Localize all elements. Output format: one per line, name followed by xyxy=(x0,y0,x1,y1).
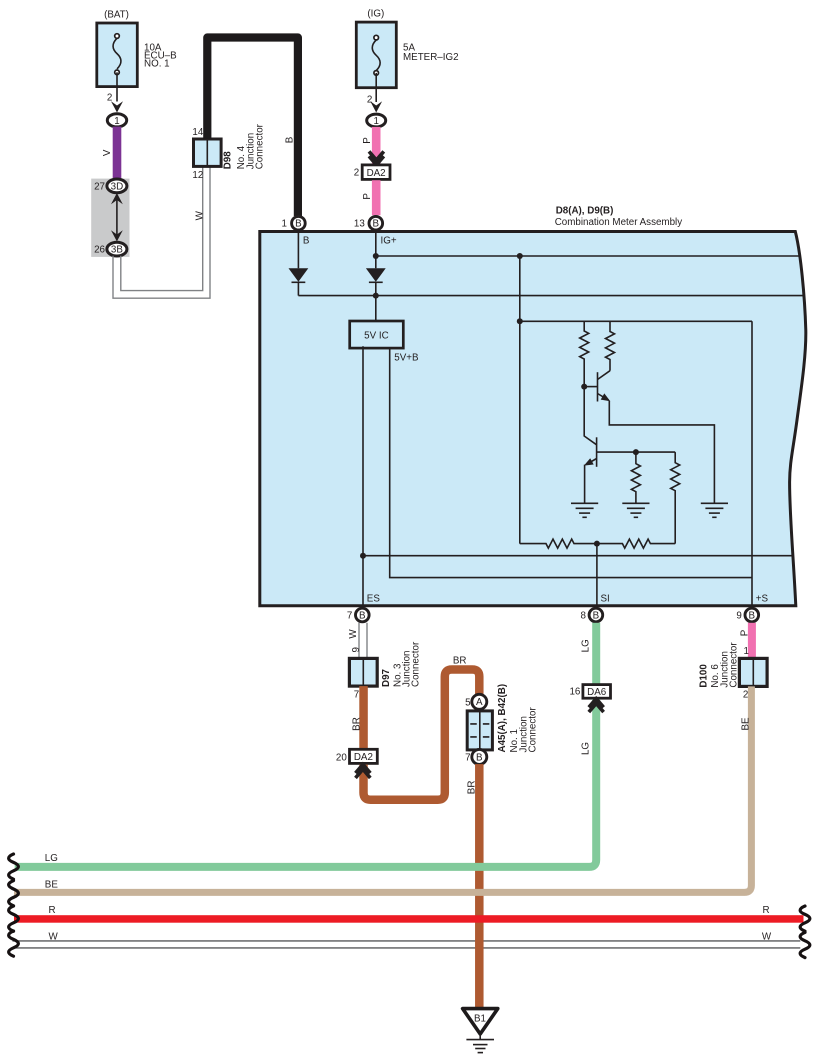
svg-text:B: B xyxy=(285,136,296,143)
svg-text:R: R xyxy=(763,905,770,916)
break squiggle W right xyxy=(800,932,810,957)
svg-text:Connector: Connector xyxy=(410,641,421,687)
svg-text:BR: BR xyxy=(467,781,478,795)
terminal ellipse 1 (BAT branch) xyxy=(107,114,126,127)
ground G1 xyxy=(571,503,598,517)
svg-text:IG+: IG+ xyxy=(381,236,397,247)
connector DA2 (pin 2) xyxy=(354,165,390,180)
connector DA6 (pin 16) xyxy=(569,685,610,699)
junction connector D100 No.6 xyxy=(699,642,768,701)
svg-text:V: V xyxy=(102,149,113,156)
svg-text:ES: ES xyxy=(367,594,381,605)
transistor Q1 xyxy=(584,371,610,402)
diode D2 xyxy=(366,268,386,282)
wire LG from pin 8 to DA6 xyxy=(581,623,601,685)
bus R (red) xyxy=(14,905,804,923)
combination meter assembly D8(A), D9(B) box xyxy=(260,205,806,606)
svg-text:Combination Meter Assembly: Combination Meter Assembly xyxy=(555,217,683,228)
wire BR from B42 pin 7 to ground B1 xyxy=(467,764,484,1009)
node at transistor feed line xyxy=(517,318,523,324)
svg-text:BR: BR xyxy=(453,655,467,666)
5V IC xyxy=(350,321,404,348)
break squiggle R right xyxy=(800,906,810,931)
wire SI to pin 8 xyxy=(596,544,598,608)
wire from fuse to pin 2 xyxy=(107,72,117,103)
svg-text:D97: D97 xyxy=(381,668,392,687)
direction chevrons (down) above DA2 xyxy=(369,151,384,165)
svg-text:W: W xyxy=(49,931,59,942)
pin 1 B (meter) xyxy=(282,216,306,230)
terminal circle B (pin 7) xyxy=(465,749,487,764)
Q1 emitter wire to right ground xyxy=(609,401,714,504)
internal supply line 2 xyxy=(298,295,802,297)
break squiggle W left xyxy=(9,931,19,956)
ES branch line to right edge xyxy=(363,555,794,557)
resistor network line with R5 R6 xyxy=(520,539,675,548)
junction connector D97 No.3 xyxy=(349,641,421,700)
wire W from 3B to D98 pin 12 (white wire, double line) xyxy=(113,167,210,299)
svg-text:2: 2 xyxy=(743,690,748,701)
svg-text:(IG): (IG) xyxy=(367,9,384,20)
fuse METER-IG2 5A (IG) xyxy=(356,9,458,88)
svg-text:B: B xyxy=(749,610,756,621)
pin 2 arrow (IG) xyxy=(370,101,382,112)
svg-text:W: W xyxy=(195,210,206,220)
+S internal vertical wire xyxy=(751,321,753,608)
svg-text:B: B xyxy=(593,610,600,621)
svg-text:1: 1 xyxy=(373,116,378,127)
wire BR from D97 pin 7 to DA2 xyxy=(351,686,368,751)
svg-text:P: P xyxy=(740,629,751,636)
wire B inside meter xyxy=(298,231,310,269)
break squiggle LG left xyxy=(9,854,19,879)
svg-text:14: 14 xyxy=(192,127,203,138)
svg-text:B: B xyxy=(303,236,310,247)
wire V (violet) xyxy=(102,127,121,180)
svg-text:P: P xyxy=(362,137,373,144)
wire LG from DA6 to left bus xyxy=(15,699,597,867)
pin 2 arrow xyxy=(111,101,123,112)
svg-text:3D: 3D xyxy=(111,181,124,192)
svg-text:W: W xyxy=(762,931,772,942)
svg-text:Connector: Connector xyxy=(255,123,266,169)
svg-text:1: 1 xyxy=(114,116,119,127)
svg-text:DA2: DA2 xyxy=(354,752,373,763)
direction chevrons (up) below DA6 xyxy=(589,699,604,713)
double arrow between 3D and 3B xyxy=(111,193,123,242)
svg-text:B1: B1 xyxy=(474,1013,486,1024)
svg-text:BR: BR xyxy=(351,717,362,731)
svg-text:1: 1 xyxy=(743,646,748,657)
vertical branch wire from line1 to resistor network xyxy=(519,256,521,544)
svg-text:2: 2 xyxy=(367,94,372,105)
node line1 / collector branch xyxy=(517,253,523,259)
internal supply line 1 xyxy=(376,255,801,257)
svg-text:Connector: Connector xyxy=(729,642,740,688)
resistor R1 xyxy=(580,321,589,386)
connector DA2 (pin 20) xyxy=(336,749,377,763)
terminal ellipse 3D (pin 27) xyxy=(94,179,127,193)
svg-text:5V IC: 5V IC xyxy=(364,330,389,341)
svg-text:13: 13 xyxy=(354,219,365,230)
ground B1 xyxy=(463,1009,498,1053)
svg-text:12: 12 xyxy=(192,170,203,181)
terminal circle A (pin 5) xyxy=(465,694,487,709)
svg-text:2: 2 xyxy=(354,167,359,178)
svg-text:W: W xyxy=(348,629,359,639)
Q2 emitter wire to ground xyxy=(584,465,586,504)
wire BR from DA2 to A45/B42 pin 5 xyxy=(364,670,480,800)
svg-text:LG: LG xyxy=(581,639,592,652)
wire BE from D100 to left bus xyxy=(14,686,751,892)
fuse ECU-B NO.1 10A (BAT) xyxy=(97,10,177,87)
node at Q1 base xyxy=(581,384,587,390)
break squiggle R left xyxy=(9,906,19,931)
transistor Q2 xyxy=(584,387,675,467)
svg-text:16: 16 xyxy=(569,687,580,698)
svg-text:DA2: DA2 xyxy=(367,168,386,179)
junction block 3D/3B (gray) xyxy=(91,179,129,257)
resistor R4 xyxy=(671,452,680,543)
direction chevrons (up) below DA2 xyxy=(356,764,371,778)
wire from D2 down to 5V IC xyxy=(375,282,377,321)
svg-text:A: A xyxy=(476,697,483,708)
node on IG+ at line 1 xyxy=(373,253,379,259)
diode D1 xyxy=(289,268,309,282)
wire P from pin 9 to D100 xyxy=(740,623,756,659)
svg-text:SI: SI xyxy=(601,594,610,605)
wire ES from 5V IC to pin 7 xyxy=(362,346,364,605)
svg-text:9: 9 xyxy=(736,611,741,622)
svg-text:B: B xyxy=(295,218,302,229)
node on ES wire xyxy=(360,553,366,559)
svg-text:DA6: DA6 xyxy=(587,687,607,698)
svg-text:8: 8 xyxy=(580,611,586,622)
svg-text:5: 5 xyxy=(465,698,471,709)
svg-text:R: R xyxy=(49,905,56,916)
junction connector D98 No.4 xyxy=(192,123,265,181)
pin 7 B (ES) xyxy=(347,608,369,622)
svg-text:7: 7 xyxy=(347,611,352,622)
svg-text:B: B xyxy=(359,610,366,621)
svg-text:27: 27 xyxy=(94,182,105,193)
svg-text:(BAT): (BAT) xyxy=(104,10,129,21)
wire P (pink) upper segment xyxy=(362,127,380,166)
svg-text:BE: BE xyxy=(45,879,59,890)
svg-text:5V+B: 5V+B xyxy=(394,353,419,364)
svg-text:B: B xyxy=(373,218,380,229)
svg-text:METER–IG2: METER–IG2 xyxy=(403,52,459,63)
wire B (black thick) from D98 pin 14 to meter pin 1 xyxy=(207,38,298,217)
svg-text:BE: BE xyxy=(740,717,751,731)
bus W (white wire, double line) xyxy=(13,931,801,948)
svg-text:LG: LG xyxy=(45,853,58,864)
svg-text:7: 7 xyxy=(465,753,470,764)
svg-text:3B: 3B xyxy=(111,245,123,256)
node at Q2 base branch xyxy=(633,449,639,455)
svg-text:20: 20 xyxy=(336,752,347,763)
svg-text:A45(A), B42(B): A45(A), B42(B) xyxy=(497,684,508,753)
break squiggle BE left xyxy=(9,881,19,906)
wire from D1 to bus line 2 xyxy=(297,282,299,295)
svg-text:LG: LG xyxy=(581,742,592,755)
node SI on resistor network xyxy=(594,541,600,547)
pin 9 B (+S) xyxy=(736,608,758,622)
svg-text:P: P xyxy=(362,193,373,200)
svg-text:9: 9 xyxy=(351,647,362,652)
transistor feed line 3 xyxy=(520,320,752,322)
svg-text:D100: D100 xyxy=(699,664,710,688)
svg-text:Connector: Connector xyxy=(528,707,539,753)
wire 5V+B from 5V IC to +S xyxy=(390,348,752,578)
resistor R3 xyxy=(631,452,640,503)
svg-text:D98: D98 xyxy=(223,151,234,170)
wire IG+ inside meter xyxy=(376,231,397,269)
svg-text:B: B xyxy=(476,752,483,763)
wire from fuse to pin 2 (IG) xyxy=(367,73,376,105)
junction connector A45(A) B42(B) No.1 xyxy=(467,684,539,753)
pin 8 B (SI) xyxy=(580,608,602,622)
ground G3 xyxy=(701,503,728,517)
svg-text:+S: +S xyxy=(756,594,769,605)
node on line 2 xyxy=(373,293,379,299)
ground G2 xyxy=(622,503,649,517)
terminal ellipse 3B (pin 26) xyxy=(94,242,127,256)
svg-text:D8(A), D9(B): D8(A), D9(B) xyxy=(556,205,614,216)
terminal ellipse 1 (IG branch) xyxy=(367,114,386,127)
svg-text:NO. 1: NO. 1 xyxy=(144,59,170,70)
svg-text:26: 26 xyxy=(94,245,105,256)
svg-text:7: 7 xyxy=(354,689,359,700)
pin 13 IG+ (meter) xyxy=(354,216,383,230)
wire W from pin 7 to D97 (white wire, double line) xyxy=(348,623,367,659)
resistor R2 xyxy=(606,321,615,370)
wire P (pink) lower segment xyxy=(362,180,380,215)
svg-text:1: 1 xyxy=(282,219,287,230)
